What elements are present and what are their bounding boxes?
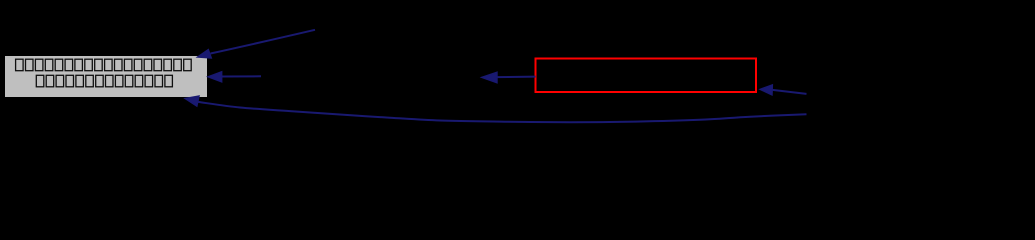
arrowhead of edge E4	[760, 85, 773, 96]
edge E2: horizontal from hidden middle node into N1 right edge	[222, 75, 262, 77]
edge E3: from N2 left edge into hidden middle node	[497, 76, 536, 79]
arrowhead of edge E3	[481, 72, 497, 83]
arrowhead of edge E2	[207, 72, 222, 83]
node N1 label line 1: 18 missing-glyph boxes	[16, 59, 192, 70]
node N2: red-bordered truncated node	[536, 59, 757, 93]
edge E1: curve from hidden top node into N1 top-right	[211, 30, 316, 54]
node N1 label line 2: 14 missing-glyph boxes	[36, 75, 172, 87]
edge E4: from hidden right node into N2 right edge	[772, 90, 806, 94]
arrowhead of edge E1	[197, 49, 212, 58]
edge E5: long bottom curve from hidden right node into N1 bottom	[198, 102, 807, 122]
arrowhead of edge E5	[185, 96, 200, 107]
node N1: grey filled function node	[5, 56, 208, 98]
